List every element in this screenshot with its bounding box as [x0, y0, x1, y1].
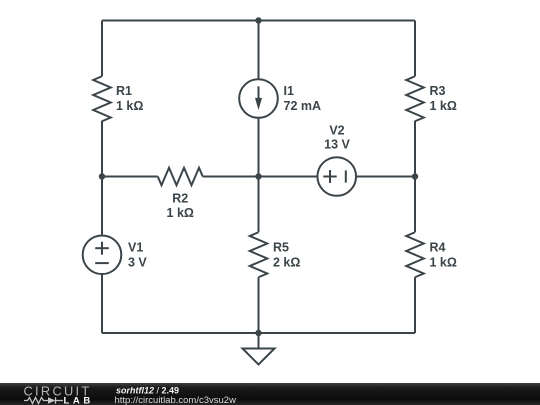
- wire bottom rail: [102, 332, 415, 334]
- svg-text:1 kΩ: 1 kΩ: [116, 99, 143, 113]
- voltage source V2: [317, 157, 356, 196]
- label I1 value 72 mA: [284, 84, 322, 113]
- svg-text:1 kΩ: 1 kΩ: [167, 206, 194, 220]
- junction node middle-right: [412, 173, 418, 179]
- label R3 value 1 kOhm: [430, 84, 457, 113]
- svg-text:R1: R1: [116, 84, 132, 98]
- svg-text:http://circuitlab.com/c3vsu2w: http://circuitlab.com/c3vsu2w: [115, 395, 237, 405]
- junction node top-center: [255, 17, 261, 23]
- svg-text:LAB: LAB: [64, 396, 94, 405]
- svg-text:sorhtfl12 / 2.49: sorhtfl12 / 2.49: [116, 386, 179, 396]
- junction node bottom-center: [255, 330, 261, 336]
- svg-text:3 V: 3 V: [128, 256, 147, 270]
- resistor R5: [250, 232, 268, 277]
- svg-text:13 V: 13 V: [324, 138, 350, 152]
- wire middle rail left: [102, 176, 158, 178]
- junction node middle-left: [99, 173, 105, 179]
- svg-text:2 kΩ: 2 kΩ: [273, 256, 300, 270]
- resistor R1: [93, 76, 111, 121]
- wire left rail lower: [101, 274, 103, 333]
- wire center stub top: [258, 21, 260, 80]
- wire left rail middle: [101, 121, 103, 236]
- svg-text:R3: R3: [430, 84, 446, 98]
- svg-text:R2: R2: [172, 192, 188, 206]
- resistor R3: [406, 76, 424, 121]
- wire top rail: [102, 20, 415, 22]
- wire left rail upper: [101, 21, 103, 77]
- current source I1: [239, 79, 278, 118]
- junction node middle-center: [255, 173, 261, 179]
- wire right rail middle: [414, 121, 416, 233]
- label R5 value 2 kOhm: [273, 241, 300, 270]
- wire right rail upper: [414, 21, 416, 77]
- svg-text:I1: I1: [284, 84, 294, 98]
- wire right rail lower: [414, 277, 416, 333]
- wire center I1-to-mid: [258, 118, 260, 177]
- voltage source V1: [83, 235, 122, 274]
- resistor R2: [158, 168, 203, 186]
- label R2 value 1 kOhm: [167, 192, 194, 221]
- ground: [243, 333, 275, 365]
- label V1 value 3 V: [128, 241, 147, 270]
- wire center R5-to-bottom: [258, 277, 260, 333]
- svg-text:72 mA: 72 mA: [284, 99, 322, 113]
- wire middle rail center: [203, 176, 318, 178]
- label R4 value 1 kOhm: [430, 241, 457, 270]
- svg-text:1 kΩ: 1 kΩ: [430, 256, 457, 270]
- svg-text:R4: R4: [430, 241, 446, 255]
- label R1 value 1 kOhm: [116, 84, 143, 113]
- wire center mid-to-R5: [258, 177, 260, 233]
- wire middle rail right: [356, 176, 415, 178]
- resistor R4: [406, 232, 424, 277]
- svg-text:R5: R5: [273, 241, 289, 255]
- svg-text:V2: V2: [329, 124, 344, 138]
- label V2 value 13 V: [324, 124, 350, 152]
- svg-text:V1: V1: [128, 241, 143, 255]
- CircuitLab logo resistor+diode glyph: [24, 397, 63, 403]
- svg-text:1 kΩ: 1 kΩ: [430, 99, 457, 113]
